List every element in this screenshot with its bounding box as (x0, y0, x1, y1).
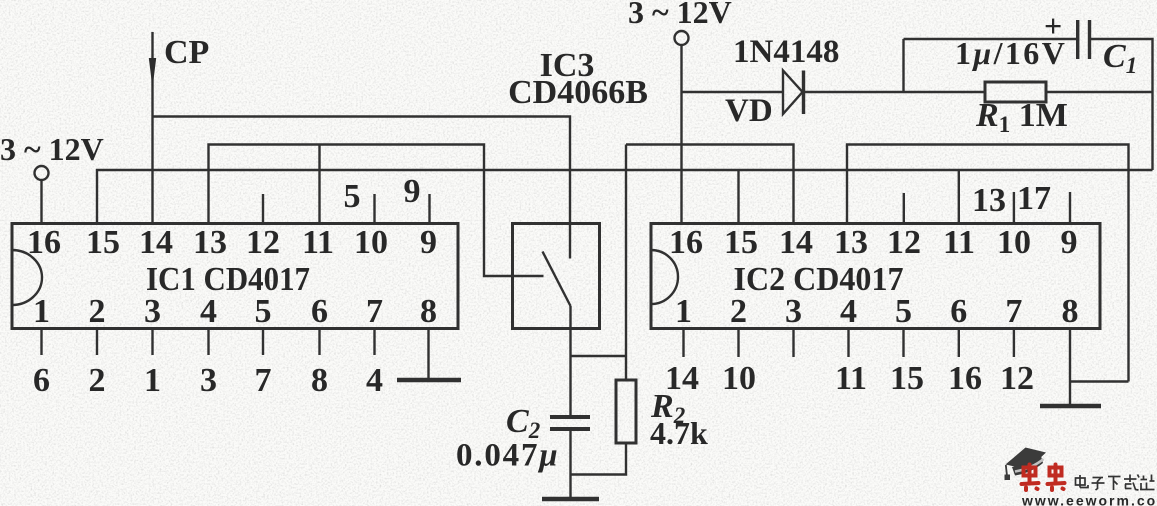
IC U1 box IC1 CD4017 (12, 224, 458, 329)
wire IC2 pin8 to ground (1069, 329, 1071, 407)
red chong char 2 (1048, 465, 1065, 491)
svg-text:5: 5 (344, 178, 361, 215)
IC2 pin9 stub (1069, 192, 1071, 224)
svg-text:6: 6 (311, 293, 328, 330)
wire bus A: CP to IC3 control (153, 117, 571, 259)
wire C1 top left (904, 38, 1077, 40)
svg-text:11: 11 (835, 360, 867, 397)
wire supply to IC1 pin16 (40, 180, 42, 224)
svg-text:10: 10 (354, 224, 388, 261)
watermark logo eeworm (1005, 448, 1157, 506)
switch arm (543, 252, 571, 307)
svg-text:9: 9 (1061, 224, 1078, 261)
IC U3 box CD4066B switch (513, 224, 600, 329)
IC1 output order labels (33, 362, 383, 399)
IC2 notch (651, 250, 678, 304)
svg-text:12: 12 (887, 224, 921, 261)
wire switch output down (569, 306, 571, 417)
svg-text:5: 5 (895, 293, 912, 330)
wire diode anode (682, 91, 784, 93)
svg-text:1μ/16V: 1μ/16V (955, 35, 1067, 71)
wire switch output to R2 top (571, 355, 627, 357)
wire R1 right (1046, 91, 1153, 93)
wire reset joins pin8 (1070, 380, 1129, 382)
IC2 output order labels (665, 360, 1034, 397)
cap light band (1015, 459, 1044, 472)
wire C2 to ground (569, 429, 571, 499)
diode VD 1N4148 (783, 71, 804, 115)
svg-text:2: 2 (730, 293, 747, 330)
svg-text:10: 10 (722, 360, 756, 397)
svg-text:17: 17 (1017, 180, 1051, 217)
svg-text:13: 13 (193, 224, 227, 261)
svg-text:15: 15 (890, 360, 924, 397)
svg-text:0.047μ: 0.047μ (456, 438, 559, 474)
svg-text:5: 5 (255, 293, 272, 330)
wire riser IC1 pin11 (318, 145, 320, 224)
IC U2 box IC2 CD4017 (651, 224, 1100, 329)
svg-text:10: 10 (997, 224, 1031, 261)
wire riser IC2 pin11 (958, 170, 960, 224)
IC1 bottom pin numbers (33, 293, 437, 330)
svg-text:1: 1 (144, 362, 161, 399)
svg-text:1: 1 (675, 293, 692, 330)
svg-text:7: 7 (255, 362, 272, 399)
svg-text:3: 3 (200, 362, 217, 399)
IC1 pin10 stub (373, 194, 375, 224)
svg-text:16: 16 (948, 360, 982, 397)
svg-text:14: 14 (665, 360, 699, 397)
svg-text:3: 3 (785, 293, 802, 330)
svg-text:R1 1M: R1 1M (975, 97, 1068, 137)
svg-text:11: 11 (302, 224, 334, 261)
svg-text:IC2 CD4017: IC2 CD4017 (734, 261, 904, 298)
red chong char 1 (1022, 465, 1039, 491)
svg-text:www.eeworm.com: www.eeworm.com (1021, 493, 1157, 506)
wire top supply to IC2 pin16 (680, 45, 682, 224)
wire R2 riser from bus D1 (625, 145, 627, 381)
svg-text:16: 16 (27, 224, 61, 261)
IC1 bottom stubs pins 1-7 (42, 329, 375, 356)
wire diode cathode to R1 (804, 91, 986, 93)
cap board (1006, 448, 1047, 470)
svg-text:15: 15 (724, 224, 758, 261)
svg-text:8: 8 (420, 293, 437, 330)
IC1 pin12 stub (262, 194, 264, 224)
wire C1 branch riser (902, 39, 904, 92)
node CP input arrow (149, 32, 156, 224)
ground IC1 pin8 (397, 378, 461, 383)
svg-text:1: 1 (33, 293, 50, 330)
svg-text:CP: CP (164, 34, 209, 71)
svg-text:13: 13 (972, 182, 1006, 219)
svg-text:3: 3 (144, 293, 161, 330)
black site name zhan (1140, 475, 1155, 490)
resistor R2 (616, 380, 636, 443)
ground C2 (542, 497, 599, 502)
ground IC2 pin8 (1040, 404, 1101, 409)
svg-text:2: 2 (89, 362, 106, 399)
svg-text:7: 7 (1005, 293, 1022, 330)
IC2 pin12 stub (903, 193, 905, 224)
svg-text:9: 9 (404, 173, 421, 210)
svg-text:7: 7 (366, 293, 383, 330)
IC1 notch (12, 250, 42, 305)
svg-text:6: 6 (950, 293, 967, 330)
capacitor C2 plates (550, 417, 590, 429)
svg-text:4: 4 (840, 293, 857, 330)
tassel (1006, 465, 1007, 476)
IC2 bottom stubs pins 1-7 (684, 329, 1014, 358)
svg-text:8: 8 (1062, 293, 1079, 330)
capacitor C1 plates (1078, 20, 1090, 59)
black site name dian (1076, 475, 1089, 488)
svg-text:15: 15 (86, 224, 120, 261)
IC2 top pin numbers (669, 224, 1078, 261)
svg-text:4: 4 (366, 362, 383, 399)
black site name xia (1108, 477, 1121, 491)
IC2 pin10 stub (1013, 192, 1015, 224)
node 3~12V top terminal (675, 31, 689, 45)
svg-text:IC1 CD4017: IC1 CD4017 (146, 261, 310, 298)
svg-text:12: 12 (246, 224, 280, 261)
svg-text:CD4066B: CD4066B (508, 74, 648, 111)
svg-text:VD: VD (725, 93, 773, 129)
svg-text:14: 14 (139, 224, 173, 261)
black site name zai (1124, 475, 1139, 491)
svg-text:12: 12 (1000, 360, 1034, 397)
resistor R1 (985, 82, 1046, 102)
svg-text:9: 9 (420, 224, 437, 261)
svg-text:14: 14 (779, 224, 813, 261)
svg-text:11: 11 (943, 224, 975, 261)
wire C1 right (1090, 39, 1153, 170)
svg-text:2: 2 (89, 293, 106, 330)
wire R2 bottom (571, 443, 627, 475)
svg-text:16: 16 (669, 224, 703, 261)
svg-text:6: 6 (33, 362, 50, 399)
IC2 bottom pin numbers (675, 293, 1079, 330)
IC1 top pin numbers (27, 224, 437, 261)
svg-text:1N4148: 1N4148 (733, 34, 839, 70)
svg-text:3 ~ 12V: 3 ~ 12V (628, 0, 732, 30)
node 3~12V left terminal (35, 166, 49, 180)
svg-text:13: 13 (834, 224, 868, 261)
wire bus D1 to IC2 pin14 (626, 145, 794, 224)
black site name zi (1092, 478, 1105, 491)
svg-text:4.7k: 4.7k (650, 415, 708, 451)
wire riser IC2 pin15 (737, 170, 739, 224)
cap base (1012, 456, 1043, 476)
svg-text:8: 8 (311, 362, 328, 399)
svg-text:4: 4 (200, 293, 217, 330)
wire IC1 pin8 to ground (427, 329, 429, 381)
svg-text:3 ~ 12V: 3 ~ 12V (0, 131, 104, 167)
wire bus B: IC1 pin13/pin11 to IC3 input (209, 145, 544, 277)
wire bus D2: IC2 pin13 to reset (847, 145, 1129, 382)
IC1 pin9 stub (428, 194, 430, 224)
wire bus C: long horizontal y=170 (97, 170, 1153, 224)
